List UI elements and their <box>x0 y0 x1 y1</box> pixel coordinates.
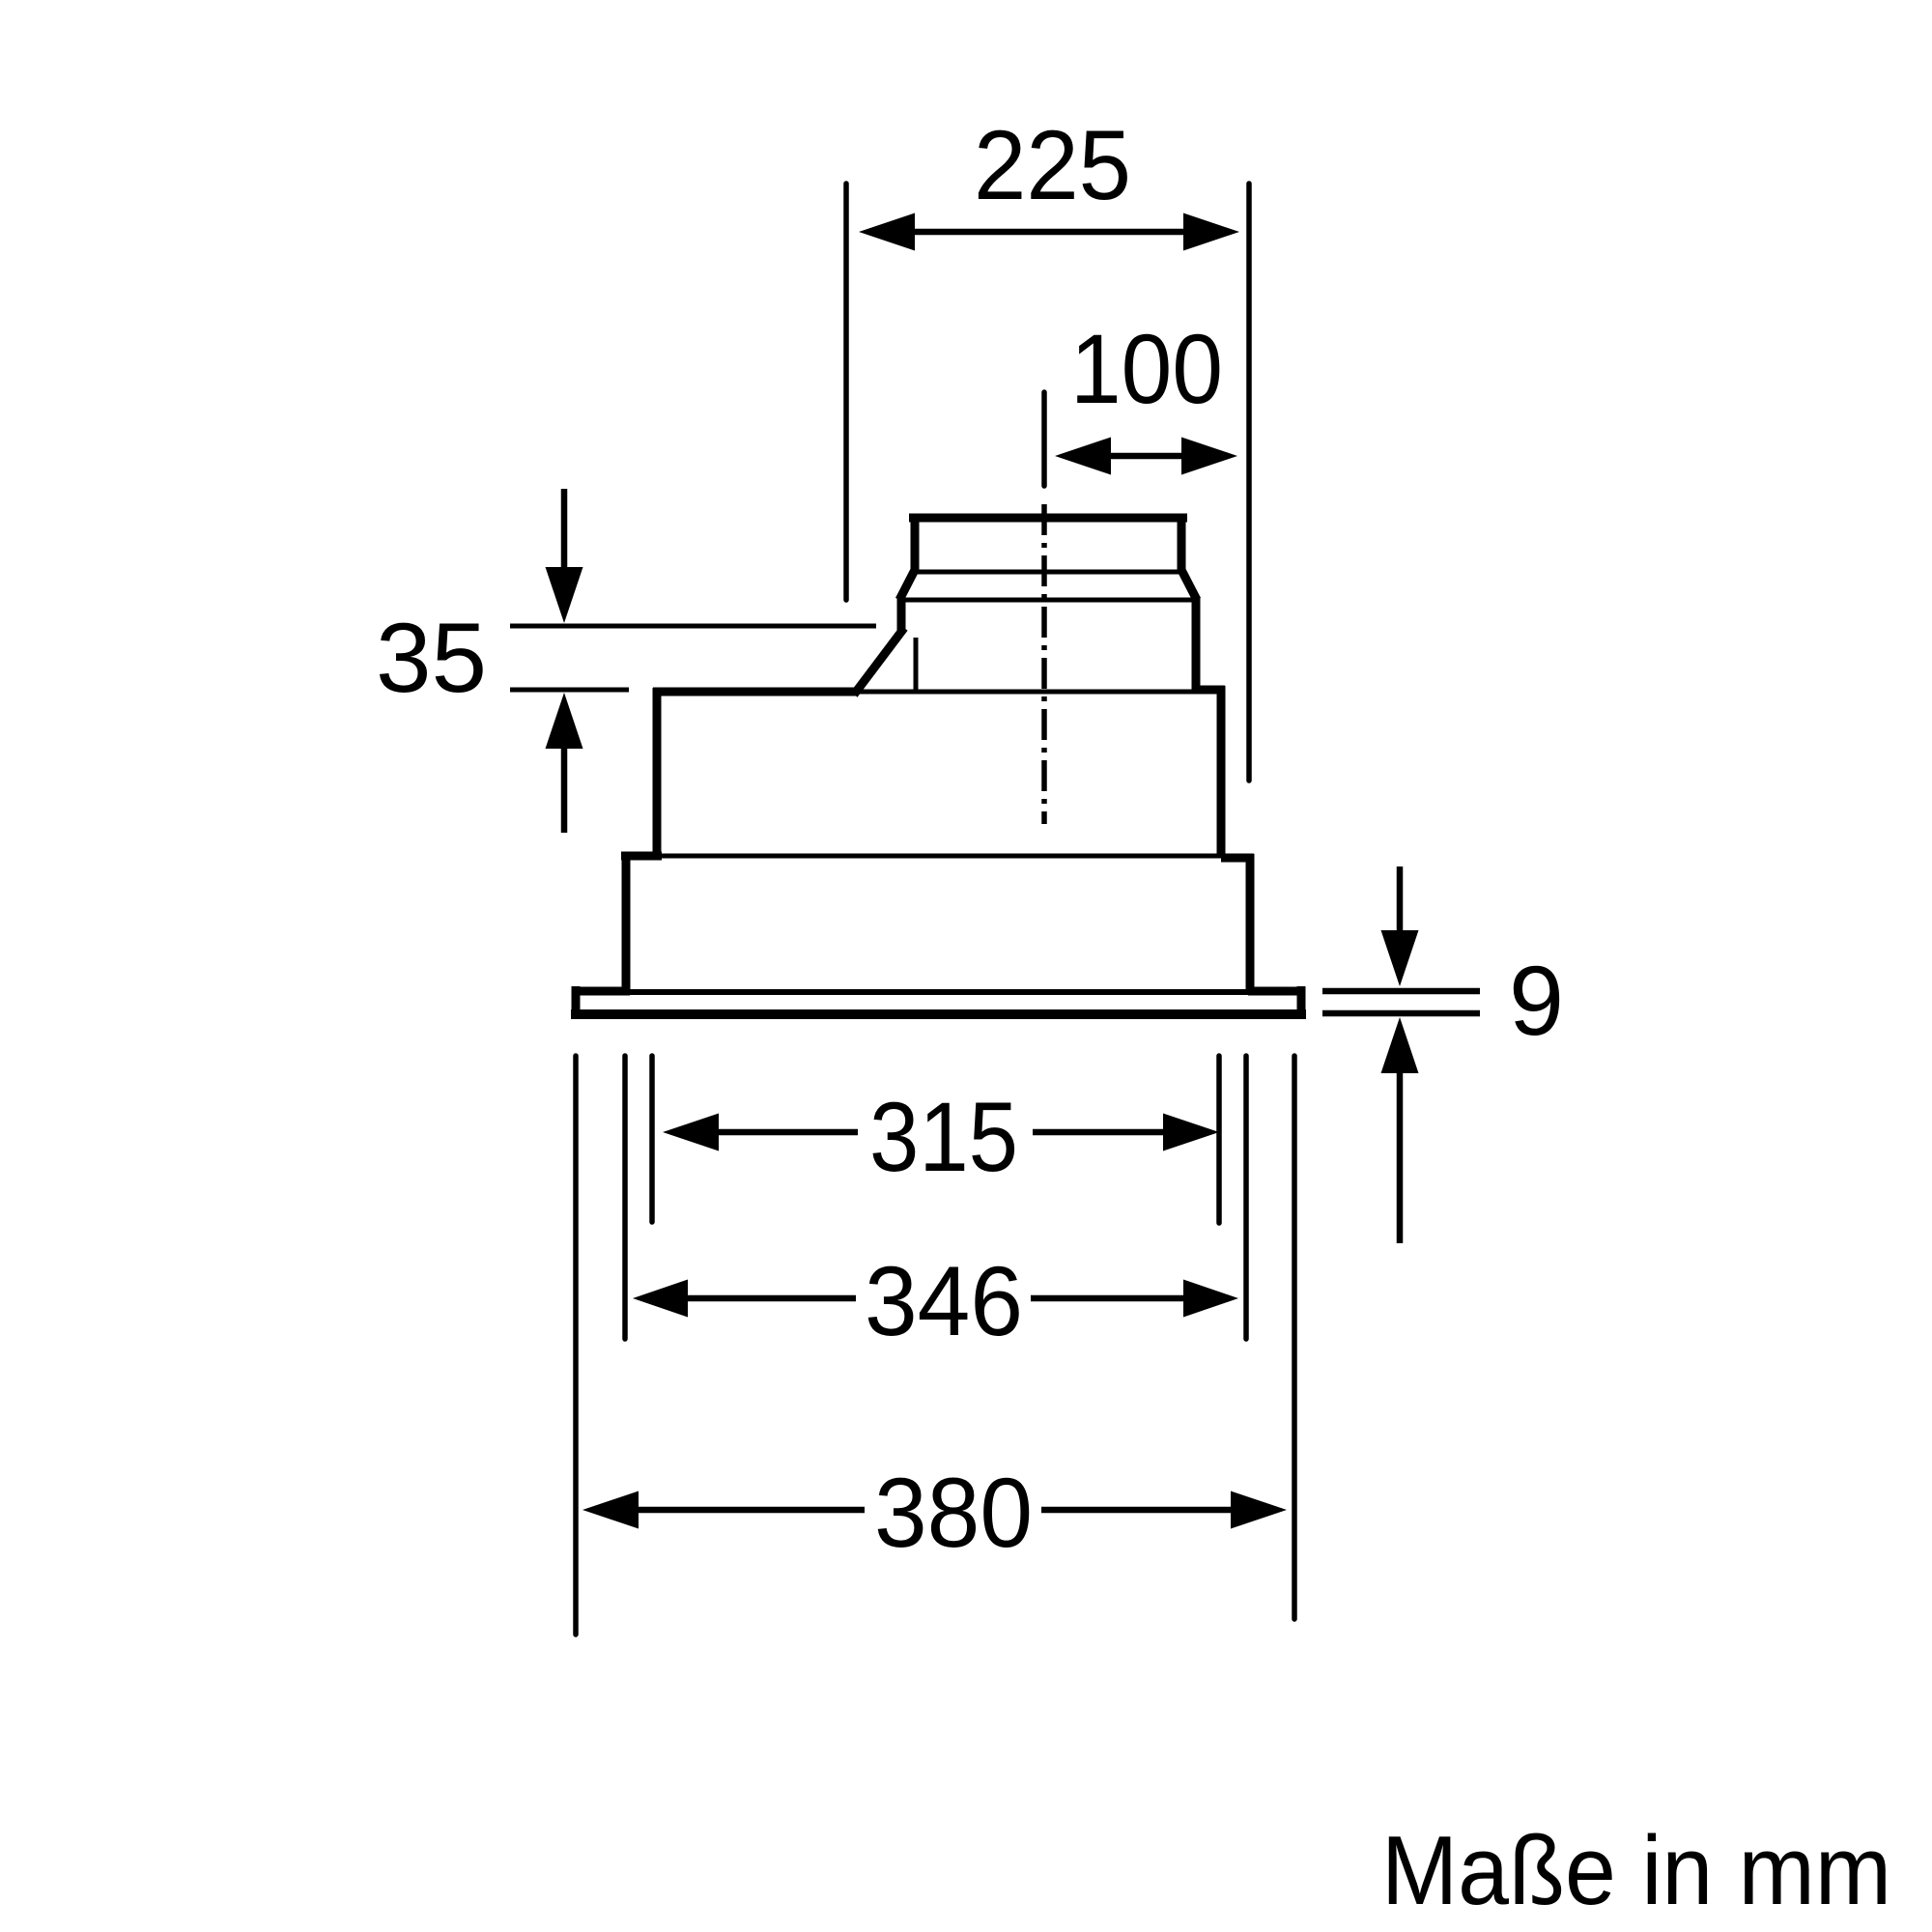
arrowhead 35 up <box>546 693 583 749</box>
dimension line 346 left segment <box>688 1295 856 1302</box>
arrowhead 100 left <box>1055 438 1111 475</box>
extension line 315 right <box>1216 1056 1222 1223</box>
svg-text:35: 35 <box>376 603 487 713</box>
duct inner hidden edge <box>914 638 919 690</box>
svg-text:315: 315 <box>869 1082 1018 1192</box>
centerline dash-dot of duct <box>1041 504 1047 824</box>
mounting plate top line under body <box>630 989 1248 995</box>
arrowhead 346 left <box>633 1280 688 1318</box>
arrowhead 346 right <box>1183 1280 1238 1318</box>
extension line centre for dim 100 <box>1041 392 1047 486</box>
dimension line 225 <box>915 229 1183 236</box>
arrow 9 down shaft <box>1397 867 1404 935</box>
svg-text:100: 100 <box>1070 314 1223 424</box>
dimension line 315 left segment <box>719 1129 858 1136</box>
duct collar left flare <box>899 570 915 600</box>
arrowhead 100 right <box>1181 438 1237 475</box>
hood lower left edge <box>622 852 631 993</box>
duct left lower edge <box>897 598 906 631</box>
dimension line 35 lower <box>510 688 629 693</box>
svg-text:225: 225 <box>974 110 1131 220</box>
duct collar right flare <box>1181 570 1197 600</box>
svg-text:346: 346 <box>865 1246 1023 1356</box>
extension line right of dim 225 <box>1246 184 1252 781</box>
mounting plate top right edge <box>1248 987 1305 996</box>
arrow 9 up shaft <box>1397 1070 1404 1243</box>
hood lower right edge <box>1246 854 1255 993</box>
dimension line 315 right segment <box>1033 1129 1163 1136</box>
duct collar top edge <box>909 514 1187 523</box>
duct collar right upper edge <box>1178 514 1186 572</box>
extension line 315 left <box>649 1056 655 1222</box>
extension line left of dim 225 <box>843 184 849 600</box>
duct collar left upper edge <box>911 514 920 572</box>
hood upper left edge <box>653 688 662 856</box>
extension line 380 left <box>573 1056 579 1634</box>
mounting plate top left edge <box>572 987 630 996</box>
hood sloped roof diagonal <box>854 628 904 695</box>
extension line 380 right <box>1292 1056 1297 1619</box>
dimension line 9 upper <box>1322 988 1480 995</box>
dimension line 380 left segment <box>639 1507 865 1514</box>
arrowhead 9 down <box>1381 930 1419 986</box>
dimension line 100 <box>1111 453 1184 460</box>
arrowhead 35 down <box>546 567 583 623</box>
duct base seam line <box>899 598 1197 603</box>
hood top step right <box>1192 686 1225 695</box>
hood upper right edge <box>1217 686 1226 856</box>
extension line 346 left <box>622 1056 628 1339</box>
svg-text:Maße in mm: Maße in mm <box>1381 1817 1891 1925</box>
dimension line 346 right segment <box>1031 1295 1183 1302</box>
svg-text:9: 9 <box>1509 946 1564 1056</box>
hood mid seam line <box>662 854 1221 859</box>
arrowhead 315 right <box>1163 1114 1219 1151</box>
hood left step <box>621 852 662 861</box>
arrowhead 315 left <box>663 1114 719 1151</box>
hood top surface line <box>858 690 1196 695</box>
arrowhead 380 right <box>1231 1492 1287 1529</box>
arrowhead 225 right <box>1183 213 1239 251</box>
mounting plate right edge <box>1297 986 1306 1018</box>
hood top edge left <box>653 688 858 696</box>
extension line 346 right <box>1243 1056 1249 1339</box>
duct right lower edge <box>1192 598 1201 692</box>
arrowhead 225 left <box>859 213 915 251</box>
dimension line 35 upper <box>510 624 876 629</box>
hood right step <box>1221 854 1254 863</box>
mounting plate left edge <box>572 986 581 1018</box>
arrowhead 9 up <box>1381 1017 1419 1073</box>
arrow 35 down shaft <box>561 489 568 572</box>
arrowhead 380 left <box>582 1492 639 1529</box>
svg-text:380: 380 <box>874 1458 1033 1568</box>
dimension line 9 lower <box>1322 1010 1480 1017</box>
dimension line 380 right segment <box>1041 1507 1231 1514</box>
mounting plate bottom edge <box>571 1009 1306 1019</box>
duct collar seam line <box>915 570 1181 575</box>
arrow 35 up shaft <box>561 746 568 833</box>
